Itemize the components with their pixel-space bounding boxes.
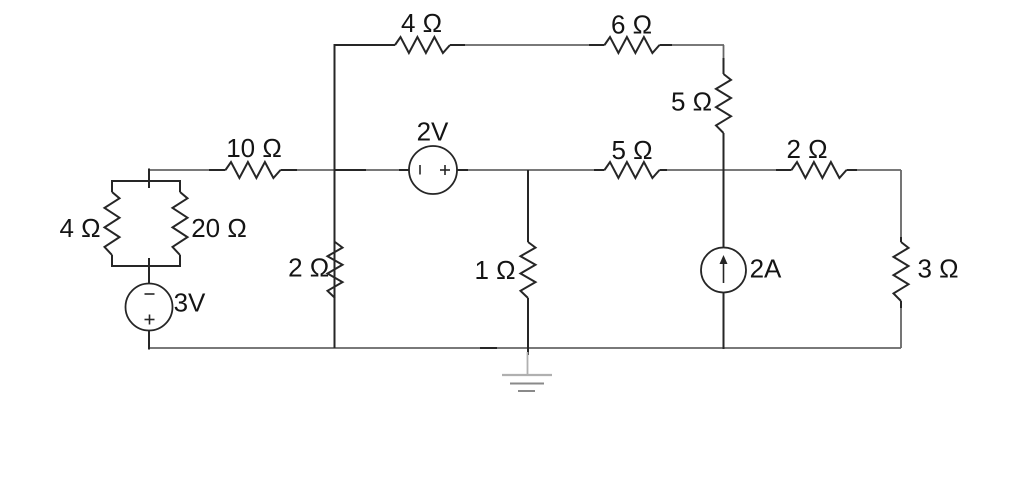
svg-text:5 Ω: 5 Ω — [611, 135, 652, 165]
svg-text:10 Ω: 10 Ω — [226, 133, 282, 163]
svg-text:2A: 2A — [750, 254, 782, 284]
svg-text:1 Ω: 1 Ω — [474, 255, 515, 285]
svg-text:20 Ω: 20 Ω — [191, 213, 247, 243]
svg-text:2 Ω: 2 Ω — [288, 253, 329, 283]
svg-text:3 Ω: 3 Ω — [917, 254, 958, 284]
svg-text:5 Ω: 5 Ω — [671, 87, 712, 117]
svg-text:4 Ω: 4 Ω — [401, 8, 442, 38]
svg-text:2 Ω: 2 Ω — [786, 134, 827, 164]
svg-text:3V: 3V — [174, 288, 206, 318]
svg-text:6 Ω: 6 Ω — [611, 10, 652, 40]
svg-text:2V: 2V — [417, 117, 449, 147]
svg-text:4 Ω: 4 Ω — [59, 213, 100, 243]
